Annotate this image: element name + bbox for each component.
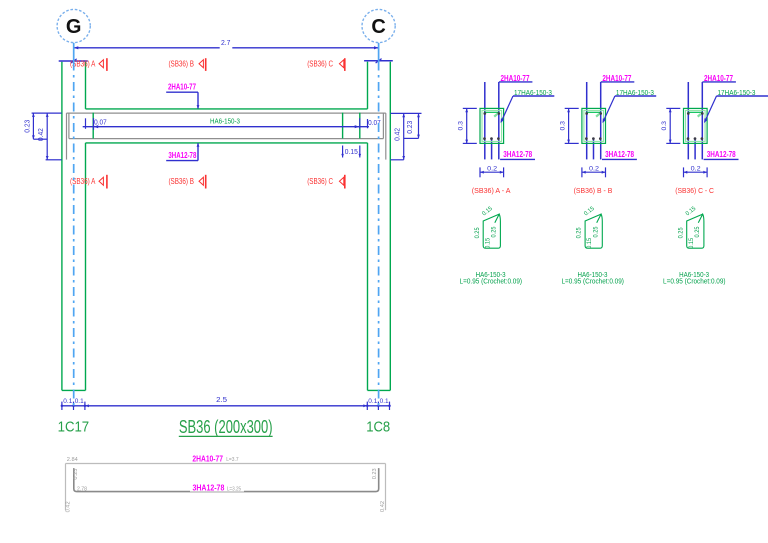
svg-text:3HA12-78: 3HA12-78 [168, 151, 196, 160]
svg-text:0.1: 0.1 [368, 398, 377, 405]
svg-text:3HA12-78: 3HA12-78 [503, 150, 532, 159]
svg-text:0.23: 0.23 [25, 120, 32, 133]
svg-text:0.15: 0.15 [689, 237, 695, 249]
svg-text:C: C [371, 16, 385, 38]
svg-text:2.84: 2.84 [67, 457, 78, 463]
svg-text:0.42: 0.42 [65, 501, 71, 512]
svg-text:0.42: 0.42 [38, 128, 45, 141]
svg-text:(SB36) C - C: (SB36) C - C [675, 186, 714, 195]
svg-text:0.2: 0.2 [487, 165, 497, 172]
svg-text:0.1: 0.1 [75, 398, 84, 405]
svg-text:0.25: 0.25 [678, 227, 684, 239]
svg-text:0.25: 0.25 [593, 226, 599, 238]
svg-text:0.3: 0.3 [458, 121, 465, 131]
svg-text:SB36 (200x300): SB36 (200x300) [179, 417, 273, 437]
svg-text:0.25: 0.25 [695, 226, 701, 238]
svg-text:L=3.7: L=3.7 [226, 457, 238, 463]
svg-text:L=3.25: L=3.25 [227, 487, 241, 493]
svg-text:0.2: 0.2 [691, 165, 701, 172]
svg-text:0.25: 0.25 [491, 226, 497, 238]
svg-text:0.42: 0.42 [380, 501, 386, 512]
svg-text:(SB36) C: (SB36) C [307, 60, 333, 69]
svg-text:0.23: 0.23 [407, 121, 414, 134]
svg-text:0.3: 0.3 [661, 121, 668, 131]
svg-text:G: G [66, 16, 82, 38]
svg-text:2.5: 2.5 [216, 395, 227, 404]
svg-text:0.1: 0.1 [63, 398, 72, 405]
svg-text:2HA10-77: 2HA10-77 [168, 82, 196, 91]
svg-text:0.1: 0.1 [380, 398, 389, 405]
svg-text:0.3: 0.3 [560, 121, 567, 131]
svg-text:L=0.95 (Crochet:0.09): L=0.95 (Crochet:0.09) [460, 279, 523, 286]
svg-text:L=0.95 (Crochet:0.09): L=0.95 (Crochet:0.09) [561, 279, 624, 286]
svg-text:0.15: 0.15 [485, 237, 491, 249]
svg-text:L=0.95 (Crochet:0.09): L=0.95 (Crochet:0.09) [663, 279, 726, 286]
svg-text:HA6-150-3: HA6-150-3 [210, 116, 240, 125]
svg-text:(SB36) B - B: (SB36) B - B [574, 186, 613, 195]
svg-text:0.25: 0.25 [577, 227, 583, 239]
svg-text:2HA10-77: 2HA10-77 [192, 454, 223, 463]
svg-text:3HA12-78: 3HA12-78 [707, 150, 736, 159]
svg-text:1C8: 1C8 [366, 419, 390, 435]
svg-text:0.07: 0.07 [94, 120, 107, 127]
svg-text:(SB36) A - A: (SB36) A - A [472, 186, 512, 195]
svg-text:2.7: 2.7 [221, 40, 231, 47]
svg-text:0.23: 0.23 [372, 468, 378, 479]
svg-text:3HA12-78: 3HA12-78 [605, 150, 634, 159]
svg-text:0.23: 0.23 [73, 469, 79, 480]
svg-text:(SB36) B: (SB36) B [168, 60, 194, 69]
svg-text:2.78: 2.78 [77, 486, 87, 492]
svg-text:(SB36) B: (SB36) B [168, 177, 194, 186]
svg-text:1C17: 1C17 [58, 419, 90, 435]
svg-text:0.42: 0.42 [394, 128, 401, 141]
svg-text:(SB36) C: (SB36) C [307, 177, 333, 186]
svg-text:0.15: 0.15 [587, 237, 593, 249]
svg-text:3HA12-78: 3HA12-78 [192, 484, 224, 493]
svg-text:0.25: 0.25 [475, 227, 481, 239]
svg-text:0.15: 0.15 [345, 149, 358, 156]
svg-text:0.2: 0.2 [589, 165, 599, 172]
